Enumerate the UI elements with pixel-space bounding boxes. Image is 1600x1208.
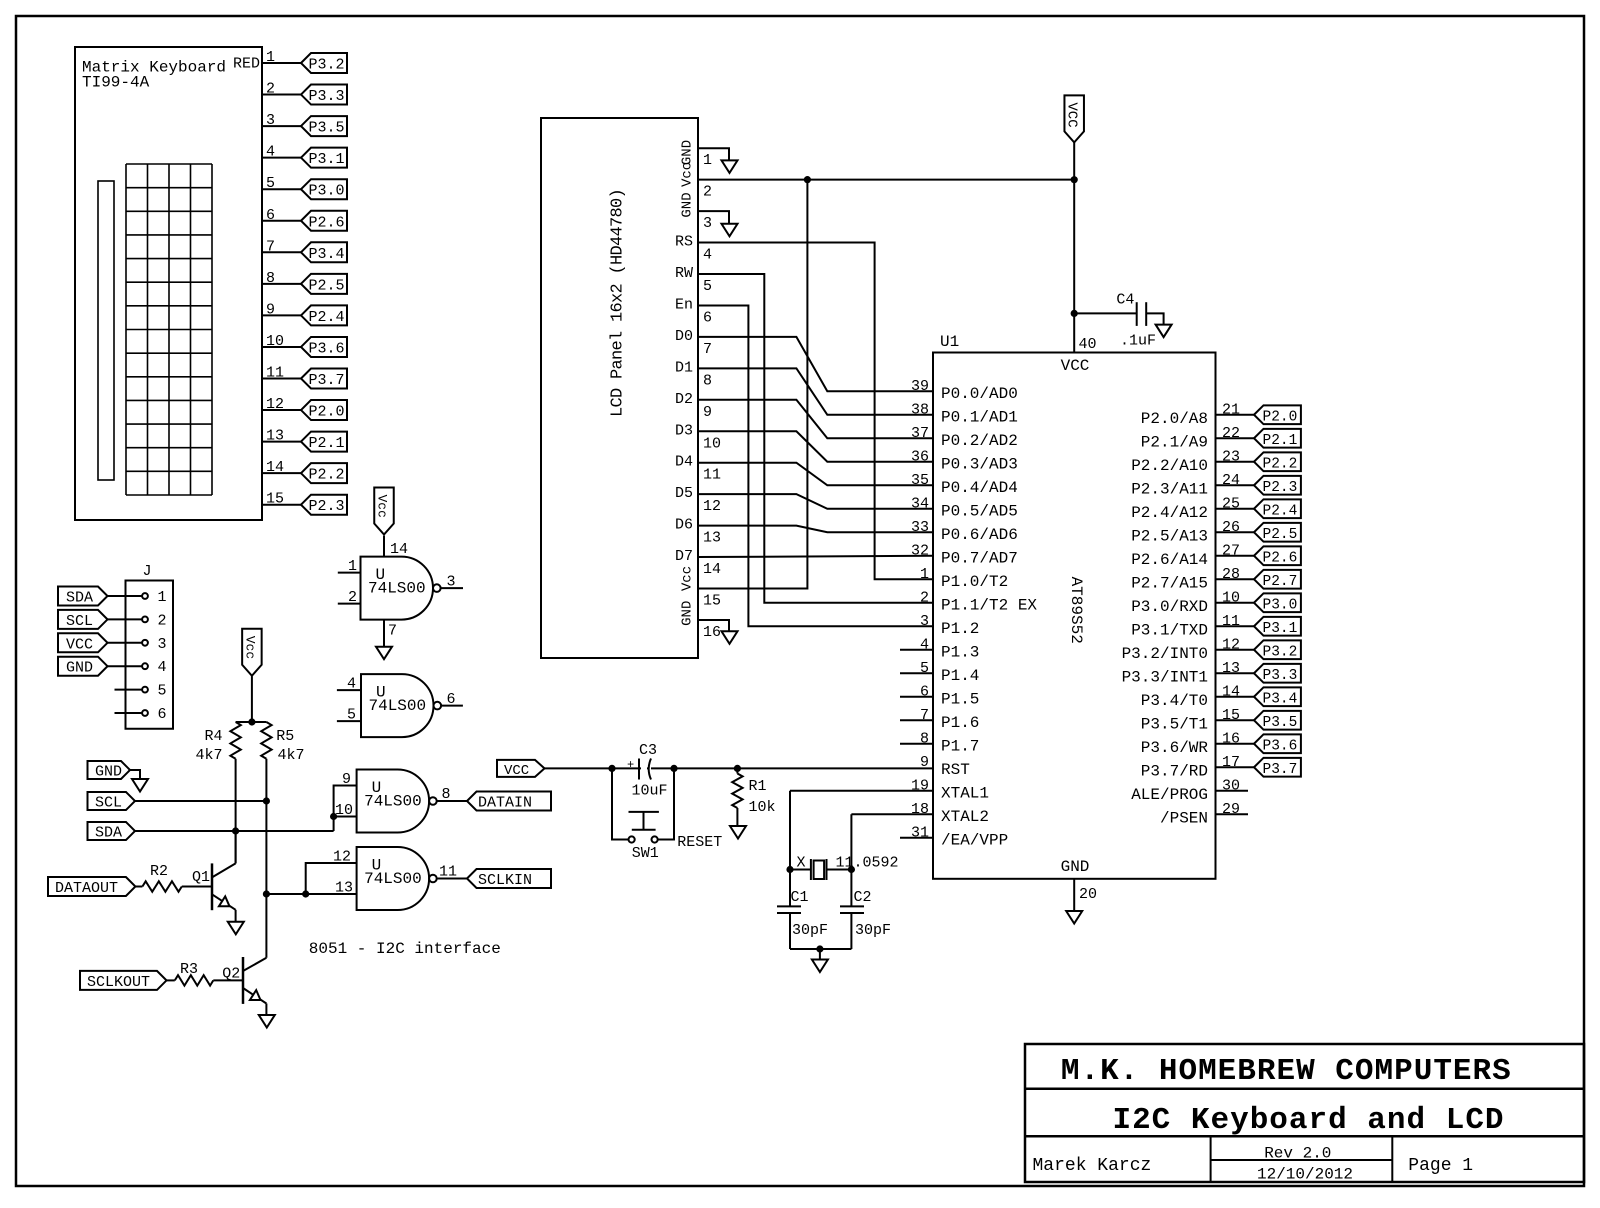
- svg-text:40: 40: [1079, 336, 1097, 353]
- svg-text:P2.3: P2.3: [1263, 480, 1298, 496]
- svg-text:P0.1/AD1: P0.1/AD1: [941, 408, 1018, 426]
- svg-text:SCL: SCL: [95, 795, 122, 812]
- svg-text:12: 12: [266, 396, 284, 413]
- svg-text:5: 5: [347, 707, 356, 724]
- svg-text:35: 35: [911, 472, 929, 489]
- svg-text:11: 11: [266, 365, 284, 382]
- svg-text:P2.3: P2.3: [309, 498, 345, 515]
- svg-text:P0.6/AD6: P0.6/AD6: [941, 526, 1018, 544]
- svg-text:XTAL2: XTAL2: [941, 808, 989, 826]
- svg-text:SDA: SDA: [66, 590, 93, 607]
- svg-text:X: X: [797, 855, 806, 872]
- svg-text:7: 7: [266, 238, 275, 255]
- svg-text:P2.2: P2.2: [1263, 456, 1298, 472]
- svg-text:P3.2/INT0: P3.2/INT0: [1122, 645, 1208, 663]
- svg-text:P2.2/A10: P2.2/A10: [1131, 457, 1208, 475]
- svg-text:9: 9: [342, 771, 351, 788]
- svg-text:4: 4: [703, 247, 712, 264]
- svg-text:P1.0/T2: P1.0/T2: [941, 573, 1008, 591]
- svg-text:Rev 2.0: Rev 2.0: [1264, 1145, 1331, 1163]
- svg-text:11.0592: 11.0592: [836, 855, 899, 872]
- svg-text:10: 10: [266, 333, 284, 350]
- svg-text:12: 12: [333, 849, 351, 866]
- svg-text:DATAIN: DATAIN: [478, 795, 532, 812]
- svg-text:Vcc: Vcc: [375, 495, 390, 518]
- svg-text:3: 3: [920, 613, 929, 630]
- svg-text:P3.2: P3.2: [309, 57, 345, 74]
- svg-text:P2.1/A9: P2.1/A9: [1141, 433, 1208, 451]
- svg-text:30pF: 30pF: [792, 922, 828, 939]
- svg-text:10: 10: [335, 802, 353, 819]
- svg-text:GND: GND: [95, 764, 122, 781]
- svg-text:P3.4/T0: P3.4/T0: [1141, 692, 1208, 710]
- svg-text:VCC: VCC: [1064, 102, 1080, 127]
- svg-text:P3.4: P3.4: [1263, 691, 1298, 707]
- svg-text:5: 5: [158, 683, 167, 700]
- svg-text:74LS00: 74LS00: [364, 870, 422, 888]
- svg-text:R2: R2: [150, 863, 168, 880]
- svg-text:5: 5: [266, 175, 275, 192]
- svg-text:4k7: 4k7: [278, 747, 305, 764]
- svg-text:J: J: [143, 563, 152, 580]
- svg-text:RESET: RESET: [677, 834, 722, 851]
- svg-text:P0.7/AD7: P0.7/AD7: [941, 549, 1018, 567]
- svg-text:M.K. HOMEBREW COMPUTERS: M.K. HOMEBREW COMPUTERS: [1061, 1054, 1512, 1089]
- svg-text:SCLKIN: SCLKIN: [478, 872, 532, 889]
- svg-text:6: 6: [703, 309, 712, 326]
- svg-text:P2.0: P2.0: [309, 404, 345, 421]
- svg-text:P0.3/AD3: P0.3/AD3: [941, 455, 1018, 473]
- svg-text:9: 9: [266, 301, 275, 318]
- svg-text:13: 13: [703, 530, 721, 547]
- svg-text:16: 16: [703, 624, 721, 641]
- svg-text:15: 15: [266, 491, 284, 508]
- svg-text:P3.0: P3.0: [309, 183, 345, 200]
- svg-text:Vcc: Vcc: [680, 566, 696, 591]
- svg-text:8: 8: [441, 786, 450, 803]
- svg-text:2: 2: [158, 612, 167, 629]
- svg-text:1: 1: [158, 589, 167, 606]
- svg-text:P3.5/T1: P3.5/T1: [1141, 715, 1208, 733]
- svg-text:P3.7: P3.7: [1263, 762, 1298, 778]
- svg-text:P3.0: P3.0: [1263, 597, 1298, 613]
- svg-text:7: 7: [703, 341, 712, 358]
- svg-text:P0.2/AD2: P0.2/AD2: [941, 432, 1018, 450]
- svg-text:GND: GND: [66, 660, 93, 677]
- svg-text:SCLKOUT: SCLKOUT: [87, 974, 150, 991]
- svg-text:P3.7: P3.7: [309, 372, 345, 389]
- svg-text:DATAOUT: DATAOUT: [55, 880, 118, 897]
- svg-text:Page 1: Page 1: [1408, 1156, 1473, 1176]
- svg-text:4: 4: [158, 659, 167, 676]
- svg-text:P1.3: P1.3: [941, 643, 979, 661]
- svg-text:6: 6: [158, 706, 167, 723]
- svg-text:D4: D4: [675, 454, 693, 471]
- svg-text:P3.0/RXD: P3.0/RXD: [1131, 598, 1208, 616]
- svg-text:Q2: Q2: [222, 965, 240, 982]
- svg-text:P1.2: P1.2: [941, 620, 979, 638]
- svg-text:39: 39: [911, 378, 929, 395]
- svg-text:P2.1: P2.1: [309, 435, 345, 452]
- svg-text:P0.5/AD5: P0.5/AD5: [941, 502, 1018, 520]
- svg-text:P1.1/T2 EX: P1.1/T2 EX: [941, 596, 1037, 614]
- svg-text:SCL: SCL: [66, 613, 93, 630]
- svg-text:RED: RED: [233, 56, 260, 73]
- svg-text:6: 6: [446, 691, 455, 708]
- svg-text:R5: R5: [276, 728, 294, 745]
- svg-text:D2: D2: [675, 391, 693, 408]
- svg-text:4: 4: [347, 676, 356, 693]
- svg-text:P0.4/AD4: P0.4/AD4: [941, 479, 1018, 497]
- svg-text:GND: GND: [680, 192, 696, 217]
- svg-text:P1.4: P1.4: [941, 667, 979, 685]
- svg-text:14: 14: [266, 459, 284, 476]
- svg-text:10uF: 10uF: [632, 783, 668, 800]
- svg-text:1: 1: [266, 49, 275, 66]
- svg-text:P2.7: P2.7: [1263, 574, 1298, 590]
- svg-text:C1: C1: [791, 889, 809, 906]
- svg-text:D1: D1: [675, 359, 693, 376]
- svg-text:8: 8: [266, 270, 275, 287]
- svg-text:P2.6/A14: P2.6/A14: [1131, 551, 1208, 569]
- svg-text:10: 10: [703, 435, 721, 452]
- svg-text:P3.6: P3.6: [1263, 738, 1298, 754]
- svg-text:30pF: 30pF: [855, 922, 891, 939]
- svg-text:D7: D7: [675, 548, 693, 565]
- svg-text:D5: D5: [675, 485, 693, 502]
- svg-text:74LS00: 74LS00: [368, 580, 426, 598]
- svg-text:10k: 10k: [749, 799, 776, 816]
- svg-text:.1uF: .1uF: [1120, 333, 1156, 350]
- svg-text:P2.5: P2.5: [309, 277, 345, 294]
- svg-text:36: 36: [911, 448, 929, 465]
- svg-text:2: 2: [266, 81, 275, 98]
- svg-text:P3.1: P3.1: [1263, 621, 1298, 637]
- svg-text:13: 13: [335, 880, 353, 897]
- svg-text:P3.2: P3.2: [1263, 644, 1298, 660]
- svg-text:Vcc: Vcc: [242, 636, 257, 659]
- svg-text:VCC: VCC: [504, 763, 529, 779]
- svg-text:P2.4: P2.4: [309, 309, 345, 326]
- svg-text:P3.5: P3.5: [1263, 715, 1298, 731]
- svg-text:RW: RW: [675, 265, 693, 282]
- svg-text:P3.5: P3.5: [309, 120, 345, 137]
- svg-text:38: 38: [911, 401, 929, 418]
- svg-text:P1.5: P1.5: [941, 690, 979, 708]
- svg-text:TI99-4A: TI99-4A: [82, 74, 150, 92]
- svg-text:P1.6: P1.6: [941, 714, 979, 732]
- svg-text:R4: R4: [204, 728, 222, 745]
- svg-text:R1: R1: [749, 778, 767, 795]
- svg-text:1: 1: [348, 558, 357, 575]
- svg-text:2: 2: [348, 589, 357, 606]
- svg-text:+: +: [627, 758, 634, 772]
- svg-text:P2.4/A12: P2.4/A12: [1131, 504, 1208, 522]
- svg-text:14: 14: [703, 561, 721, 578]
- svg-text:5: 5: [703, 278, 712, 295]
- svg-text:8051 - I2C interface: 8051 - I2C interface: [309, 940, 501, 958]
- svg-text:P2.4: P2.4: [1263, 503, 1298, 519]
- svg-text:XTAL1: XTAL1: [941, 784, 989, 802]
- svg-text:P3.3: P3.3: [1263, 668, 1298, 684]
- svg-text:9: 9: [703, 404, 712, 421]
- svg-text:11: 11: [439, 864, 457, 881]
- svg-text:/PSEN: /PSEN: [1160, 809, 1208, 827]
- svg-text:P3.1/TXD: P3.1/TXD: [1131, 621, 1208, 639]
- svg-text:GND: GND: [680, 601, 696, 626]
- svg-text:RST: RST: [941, 761, 970, 779]
- svg-text:12: 12: [703, 498, 721, 515]
- svg-text:P2.0: P2.0: [1263, 409, 1298, 425]
- svg-text:Q1: Q1: [192, 869, 210, 886]
- svg-text:2: 2: [703, 184, 712, 201]
- svg-text:U1: U1: [940, 333, 959, 351]
- svg-text:/EA/VPP: /EA/VPP: [941, 831, 1008, 849]
- svg-text:2: 2: [920, 589, 929, 606]
- svg-text:20: 20: [1079, 886, 1097, 903]
- svg-text:En: En: [675, 296, 693, 313]
- svg-text:4k7: 4k7: [195, 747, 222, 764]
- svg-text:37: 37: [911, 425, 929, 442]
- svg-text:GND: GND: [680, 140, 696, 165]
- svg-text:P3.4: P3.4: [309, 246, 345, 263]
- svg-text:VCC: VCC: [66, 636, 93, 653]
- svg-text:P2.7/A15: P2.7/A15: [1131, 574, 1208, 592]
- svg-text:3: 3: [266, 112, 275, 129]
- svg-text:P2.6: P2.6: [1263, 550, 1298, 566]
- svg-text:P2.5/A13: P2.5/A13: [1131, 527, 1208, 545]
- svg-text:14: 14: [390, 541, 408, 558]
- svg-text:P3.3: P3.3: [309, 88, 345, 105]
- svg-text:P2.6: P2.6: [309, 214, 345, 231]
- svg-text:P3.6: P3.6: [309, 340, 345, 357]
- svg-text:1: 1: [703, 152, 712, 169]
- svg-text:15: 15: [703, 593, 721, 610]
- svg-text:ALE/PROG: ALE/PROG: [1131, 786, 1208, 804]
- svg-text:Vcc: Vcc: [680, 162, 696, 187]
- svg-text:P2.5: P2.5: [1263, 527, 1298, 543]
- svg-text:SW1: SW1: [632, 845, 659, 862]
- svg-text:34: 34: [911, 495, 929, 512]
- svg-text:AT89S52: AT89S52: [1067, 577, 1085, 644]
- svg-text:P0.0/AD0: P0.0/AD0: [941, 385, 1018, 403]
- svg-text:SDA: SDA: [95, 825, 122, 842]
- svg-text:P2.2: P2.2: [309, 467, 345, 484]
- svg-text:LCD Panel 16x2 (HD44780): LCD Panel 16x2 (HD44780): [609, 189, 628, 417]
- svg-text:74LS00: 74LS00: [369, 697, 427, 715]
- svg-text:8: 8: [703, 372, 712, 389]
- svg-text:6: 6: [266, 207, 275, 224]
- svg-text:11: 11: [703, 467, 721, 484]
- svg-text:3: 3: [703, 215, 712, 232]
- svg-text:D6: D6: [675, 517, 693, 534]
- svg-text:P2.0/A8: P2.0/A8: [1141, 410, 1208, 428]
- svg-text:4: 4: [266, 144, 275, 161]
- svg-text:P1.7: P1.7: [941, 737, 979, 755]
- svg-text:I2C Keyboard and LCD: I2C Keyboard and LCD: [1112, 1103, 1504, 1138]
- svg-text:Marek Karcz: Marek Karcz: [1033, 1156, 1152, 1176]
- svg-text:P2.3/A11: P2.3/A11: [1131, 480, 1208, 498]
- svg-text:3: 3: [158, 636, 167, 653]
- svg-text:7: 7: [388, 623, 397, 640]
- svg-text:P3.7/RD: P3.7/RD: [1141, 762, 1208, 780]
- svg-text:GND: GND: [1061, 858, 1090, 876]
- svg-text:32: 32: [911, 542, 929, 559]
- svg-text:D0: D0: [675, 328, 693, 345]
- svg-text:VCC: VCC: [1061, 357, 1090, 375]
- svg-text:P3.6/WR: P3.6/WR: [1141, 739, 1209, 757]
- svg-text:13: 13: [266, 428, 284, 445]
- svg-text:12/10/2012: 12/10/2012: [1257, 1166, 1353, 1184]
- svg-text:RS: RS: [675, 234, 693, 251]
- svg-text:R3: R3: [180, 961, 198, 978]
- svg-text:P3.3/INT1: P3.3/INT1: [1122, 668, 1208, 686]
- svg-text:P3.1: P3.1: [309, 151, 345, 168]
- svg-text:1: 1: [920, 566, 929, 583]
- svg-text:3: 3: [446, 574, 455, 591]
- svg-text:33: 33: [911, 519, 929, 536]
- svg-text:74LS00: 74LS00: [364, 793, 422, 811]
- svg-text:C4: C4: [1116, 292, 1134, 309]
- svg-text:P2.1: P2.1: [1263, 433, 1298, 449]
- svg-text:C2: C2: [854, 889, 872, 906]
- svg-text:D3: D3: [675, 422, 693, 439]
- svg-text:C3: C3: [639, 742, 657, 759]
